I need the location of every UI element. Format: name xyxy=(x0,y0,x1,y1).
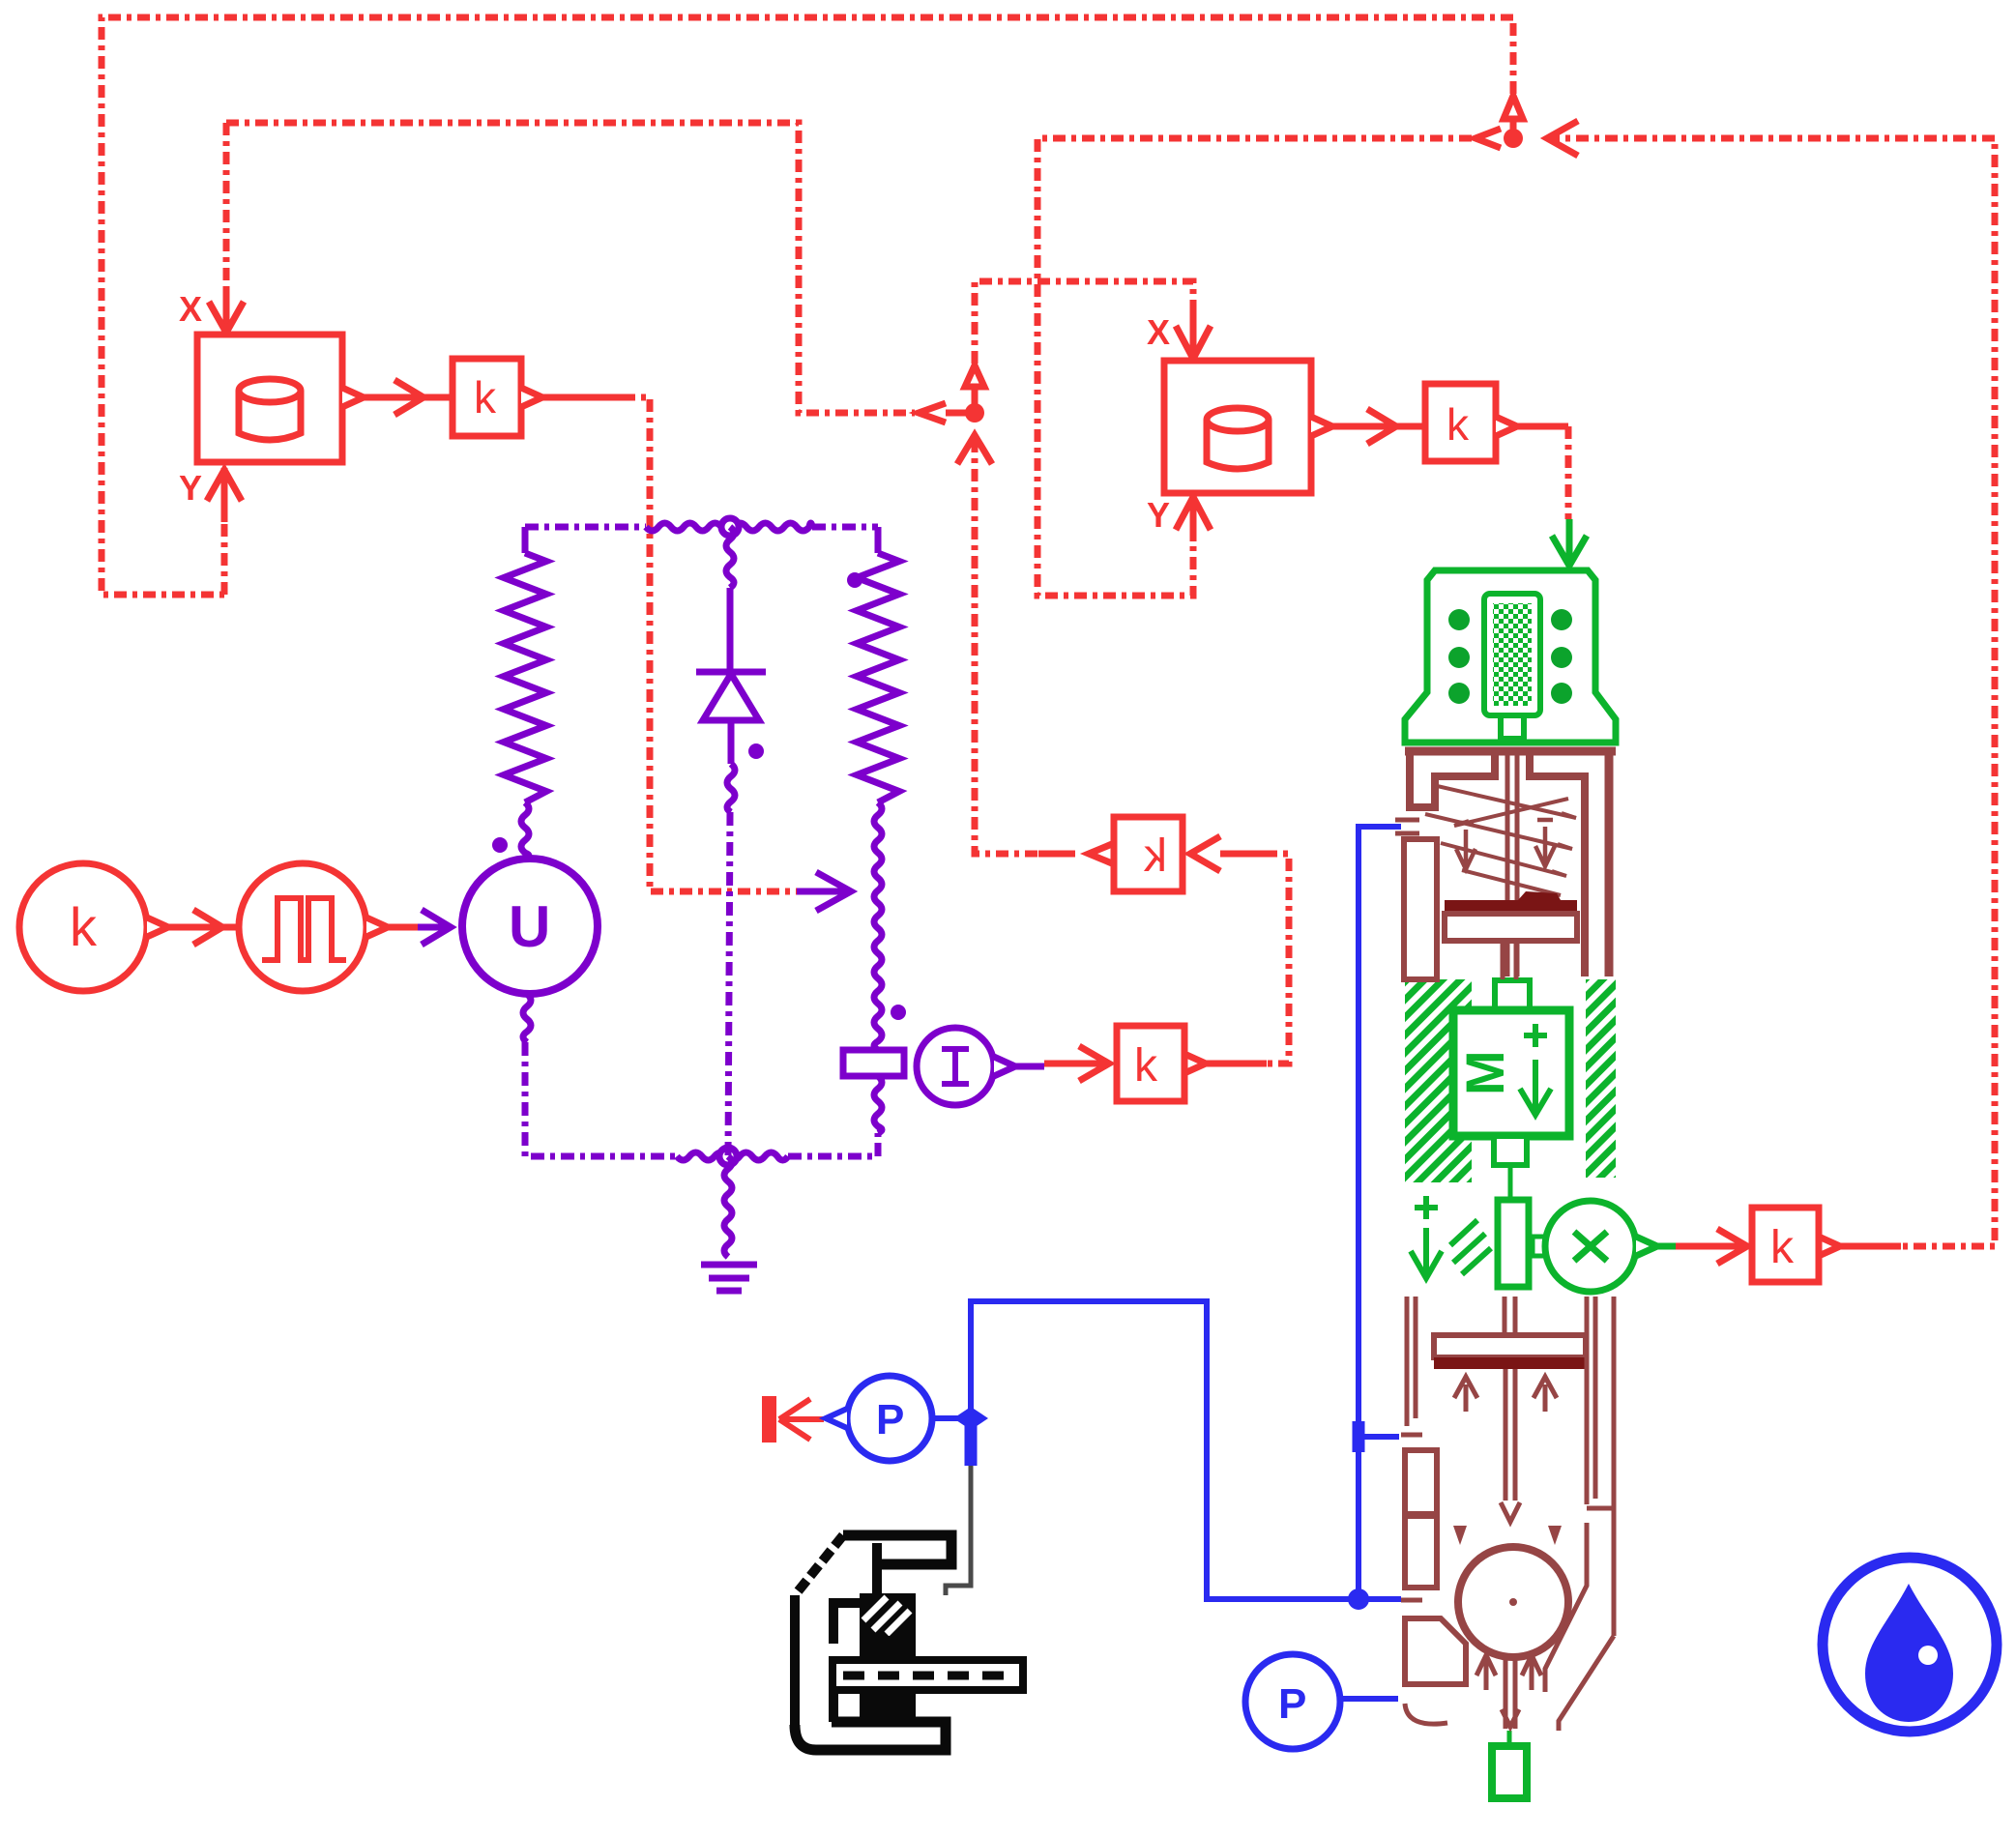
port output triangle k2 xyxy=(1496,417,1517,436)
svg-text:k: k xyxy=(474,372,497,423)
port output triangle k4 xyxy=(1184,1054,1206,1073)
valve pilot right outer wall xyxy=(1605,755,1614,976)
variable resistor R2 xyxy=(857,553,899,802)
port output triangle XY1 xyxy=(342,388,364,407)
wire U source bottom wavy xyxy=(523,994,531,1042)
wire diode branch bottom wavy xyxy=(727,764,735,812)
XY plotter block XY2 xyxy=(1164,361,1311,493)
feedback spring needles xyxy=(1425,785,1576,895)
guide wall hatched left xyxy=(1405,979,1472,1182)
node dot I sensor top xyxy=(891,1005,906,1020)
wire junction A to XY2 X input dash-dot xyxy=(975,281,1193,364)
wire XY2 to k2 xyxy=(1332,423,1423,430)
pulse generator circle xyxy=(239,863,366,991)
gain block k1 xyxy=(453,359,521,436)
wire diode cathode xyxy=(728,720,735,764)
wire stub into valve mid port xyxy=(1359,1596,1401,1602)
pressure sensor P2 xyxy=(1245,1654,1340,1749)
mass block stem top xyxy=(1495,980,1530,1009)
node Y-arrowhead XY1 xyxy=(207,470,242,501)
node arrowhead into k3 xyxy=(1190,836,1220,871)
solenoid coil dots left xyxy=(1448,609,1470,630)
wire second loop dash-dot xyxy=(226,123,915,413)
node rod arrowhead xyxy=(1501,1502,1520,1522)
node arrow up left under piston xyxy=(1454,1377,1477,1412)
wire k to pulse generator xyxy=(168,924,237,931)
node pilot arrow right xyxy=(1535,820,1555,866)
node arrowhead into junction B from right xyxy=(1547,121,1578,156)
wire to junction A xyxy=(946,410,969,417)
node Y-arrowhead XY2 xyxy=(1176,497,1211,530)
port output triangle I sensor xyxy=(994,1057,1015,1076)
valve main stage right wall xyxy=(1587,1297,1614,1636)
voltage source U xyxy=(462,859,598,994)
receiver tag K at P1 xyxy=(762,1396,776,1443)
port triangle up at junction A xyxy=(965,365,984,387)
node arrowhead into k5 xyxy=(1717,1229,1747,1264)
valve pilot right chamber bracket xyxy=(1530,755,1585,976)
valve main stage left wall xyxy=(1407,1297,1416,1426)
wire stub into valve upper port xyxy=(1359,1434,1399,1440)
node bottom rail xyxy=(719,1148,737,1165)
port output triangle k5 xyxy=(1819,1237,1840,1256)
node arrowhead into solenoid xyxy=(1552,536,1587,566)
ground xyxy=(701,1265,757,1291)
svg-text:k: k xyxy=(1770,1222,1795,1273)
node plus sign in M xyxy=(1524,1024,1547,1047)
node dot near U source xyxy=(492,837,508,853)
wire X input XY1 solid xyxy=(223,290,230,331)
machine frame bottom xyxy=(795,1722,946,1750)
node arrows below pump xyxy=(1476,1655,1496,1690)
wire I sensor output xyxy=(1015,1064,1044,1070)
port lips at pilot port xyxy=(1395,820,1419,833)
wire x sensor to k5 xyxy=(1676,1243,1747,1250)
wire junction A down dash-dot xyxy=(975,440,1038,854)
valve pilot seat dark bar xyxy=(1445,900,1577,914)
node arrow down in M xyxy=(1520,1060,1551,1115)
wire Y input XY1 xyxy=(221,468,228,522)
solenoid plunger xyxy=(1501,715,1524,739)
wire pump rod to load port xyxy=(1507,1731,1512,1746)
gain block k5 xyxy=(1752,1208,1819,1282)
wire P2 to valve port xyxy=(1340,1696,1398,1702)
node dot diode xyxy=(748,743,764,759)
wire R2 top stub xyxy=(875,527,882,553)
wire R1 top stub xyxy=(522,527,529,553)
node X-arrowhead XY1 xyxy=(209,302,244,333)
wire R2 lower wavy xyxy=(874,802,882,1050)
node plus sign transducer xyxy=(1415,1196,1438,1219)
solenoid housing U10 xyxy=(1405,570,1616,743)
gain block k2 xyxy=(1425,384,1496,461)
wire k3 output left xyxy=(1038,851,1075,858)
pressure sensor P1 xyxy=(847,1376,932,1461)
right wall taper xyxy=(1545,1523,1614,1731)
wire junction B up xyxy=(1510,121,1517,138)
valve pilot stem xyxy=(1503,941,1516,979)
position sensor x xyxy=(1545,1201,1636,1292)
node dot R2 top xyxy=(847,572,862,588)
machine frame diagonal xyxy=(795,1535,843,1595)
current sensor I circle xyxy=(917,1028,994,1105)
wire signal into solenoid xyxy=(1566,519,1573,561)
port output triangle constant k xyxy=(147,918,168,937)
node arrowhead into k1 xyxy=(394,380,424,415)
solenoid coil core xyxy=(1484,594,1540,715)
tank symbol circle xyxy=(1823,1558,1997,1732)
diode D1 xyxy=(696,669,766,676)
port triangle left at junction A xyxy=(919,403,946,423)
node control arrowhead into R2 xyxy=(816,872,851,911)
current sensor body xyxy=(843,1050,904,1076)
node junction A xyxy=(965,403,984,423)
svg-text:X: X xyxy=(1147,312,1170,352)
load port green xyxy=(1492,1746,1527,1798)
tank droplet xyxy=(1865,1584,1953,1722)
wire circuit top rail wavy xyxy=(646,523,812,531)
wire I sensor to k4 xyxy=(1044,1061,1109,1067)
node junction P1 xyxy=(953,1407,988,1430)
mass block stem bottom xyxy=(1494,1136,1527,1165)
wire k5 output xyxy=(1841,1243,1901,1250)
port output triangle k3 (points left) xyxy=(1089,844,1112,863)
wire stem to transducer xyxy=(1508,1165,1513,1200)
wire top feedback loop dash-dot xyxy=(102,17,1513,595)
node arrow up right under piston xyxy=(1534,1377,1557,1412)
port triangle up at junction B xyxy=(1504,96,1523,119)
sleeve box left upper xyxy=(1405,1450,1437,1514)
node X-arrowhead XY2 xyxy=(1176,326,1211,359)
wire XY2 X input solid xyxy=(1190,309,1197,357)
wire k4 to k3 dash-dot riser xyxy=(1265,854,1289,1064)
machine frame left wall xyxy=(790,1595,800,1725)
solenoid coil dots right xyxy=(1551,609,1572,630)
wire k2 to solenoid dash-dot xyxy=(1565,426,1572,519)
node arrowhead into k2 xyxy=(1367,409,1396,444)
main spool rod to pump xyxy=(1505,1369,1515,1501)
port stub left mid xyxy=(1401,1598,1422,1603)
wire valve pilot port line xyxy=(1359,827,1401,1599)
displacement transducer body xyxy=(1498,1200,1529,1287)
machine rod bar xyxy=(833,1660,1023,1690)
sleeve curve bottom left xyxy=(1405,1704,1447,1724)
valve pilot left chamber bracket xyxy=(1410,755,1495,807)
wire right feedback riser dash-dot xyxy=(1547,138,1995,1246)
svg-text:k: k xyxy=(1143,831,1167,882)
wire k2 output xyxy=(1517,423,1568,430)
wire k1 output xyxy=(542,394,623,401)
wire pilot sense loop xyxy=(971,1301,1352,1599)
svg-text:k: k xyxy=(1134,1040,1158,1092)
svg-text:U: U xyxy=(509,894,550,959)
port output triangle k1 xyxy=(521,388,542,407)
wire pulse generator to U source xyxy=(388,924,418,931)
wire x sensor output xyxy=(1657,1243,1676,1250)
svg-text:P: P xyxy=(876,1396,904,1443)
main spool rod lower xyxy=(1505,1655,1515,1729)
port output triangle pulse generator xyxy=(366,918,388,937)
wire k1 to variable resistor dash-dot xyxy=(623,397,797,891)
port output triangle XY2 xyxy=(1311,417,1332,436)
node rod lower arrowhead xyxy=(1502,1709,1519,1727)
main piston plate xyxy=(1434,1335,1586,1357)
port output triangle P1 (points left) xyxy=(826,1409,847,1428)
node arrowhead into U source input xyxy=(422,910,451,945)
resistor R1 xyxy=(504,553,546,802)
guide wall hatched right xyxy=(1586,979,1616,1178)
sleeve box left lower xyxy=(1405,1516,1437,1588)
wire gray drop line from P1 junction xyxy=(946,1466,971,1595)
wire circuit top rail dash-dot xyxy=(525,524,878,531)
metering orifice arrows above pump xyxy=(1453,1526,1467,1545)
source constant k circle xyxy=(19,863,147,991)
node arrowhead into k4 xyxy=(1079,1046,1109,1081)
XY plotter block XY1 xyxy=(197,335,342,462)
main spool rod upper xyxy=(1505,1297,1515,1335)
wire XY2 Y input solid xyxy=(1190,499,1197,541)
wire diode anode xyxy=(727,588,734,670)
wire diode branch top wavy xyxy=(726,527,734,588)
port stub left upper xyxy=(1401,1433,1422,1438)
valve pilot stage top plate xyxy=(1405,747,1616,756)
valve pilot spool box xyxy=(1445,914,1577,941)
transducer hatch ticks xyxy=(1450,1220,1491,1274)
wire junction thick stub down xyxy=(965,1418,978,1466)
valve flapper armature xyxy=(1507,755,1517,976)
main piston dark band xyxy=(1434,1357,1586,1369)
wire k4 output xyxy=(1207,1061,1267,1067)
pump rotor circle xyxy=(1458,1547,1568,1657)
sleeve polygon left bottom xyxy=(1405,1618,1466,1684)
svg-text:M: M xyxy=(1454,1050,1515,1095)
node junction valve bottom xyxy=(1348,1588,1369,1610)
wire circuit bottom rail wavy xyxy=(677,1152,788,1160)
port output triangle x sensor xyxy=(1636,1237,1657,1256)
node arrowhead up below junction A xyxy=(957,435,992,464)
wire circuit bottom rail dash-dot xyxy=(525,1042,878,1156)
wire below sensor wavy xyxy=(874,1076,882,1133)
wire diode branch dash-dot to bottom rail xyxy=(728,812,730,1156)
machine hatched armature xyxy=(860,1593,916,1636)
wire P1 to junction xyxy=(932,1415,971,1421)
node junction B top xyxy=(1504,129,1523,148)
port triangle left at junction B xyxy=(1475,129,1501,148)
svg-text:Y: Y xyxy=(1147,495,1170,535)
gain block k3 (mirrored k) xyxy=(1114,817,1183,891)
svg-text:X: X xyxy=(179,289,202,329)
machine lower block xyxy=(860,1690,916,1722)
wire junction A up xyxy=(972,389,979,413)
node spring arrowheads xyxy=(1454,813,1576,876)
transducer coupler xyxy=(1533,1237,1545,1256)
wire R1 to U source wavy xyxy=(521,802,529,859)
wire junction B to top line dash-dot xyxy=(1510,17,1517,94)
svg-text:Y: Y xyxy=(179,468,202,508)
wire X input XY1 dash-dot xyxy=(223,123,230,290)
svg-text:k: k xyxy=(70,896,98,957)
gain block k4 xyxy=(1117,1026,1184,1101)
machine inner bracket xyxy=(833,1543,877,1722)
wire XY2 Y loop dash-dot xyxy=(1037,138,1472,596)
node junction valve upper xyxy=(1353,1421,1365,1452)
svg-text:P: P xyxy=(1278,1680,1306,1728)
wire to ground wavy xyxy=(724,1156,732,1257)
valve pilot left slot xyxy=(1404,839,1437,979)
wire into k3 from right xyxy=(1220,851,1265,858)
node arrow down transducer xyxy=(1411,1228,1442,1278)
mass block M xyxy=(1453,1010,1569,1136)
machine frame top bar xyxy=(843,1535,951,1564)
svg-text:k: k xyxy=(1446,399,1470,450)
node pilot arrow left xyxy=(1456,823,1475,869)
machine armature lower block xyxy=(860,1636,916,1657)
node arrowhead into pulse generator xyxy=(193,910,222,945)
wire XY1 to k1 xyxy=(364,394,451,401)
node top rail xyxy=(721,518,739,536)
